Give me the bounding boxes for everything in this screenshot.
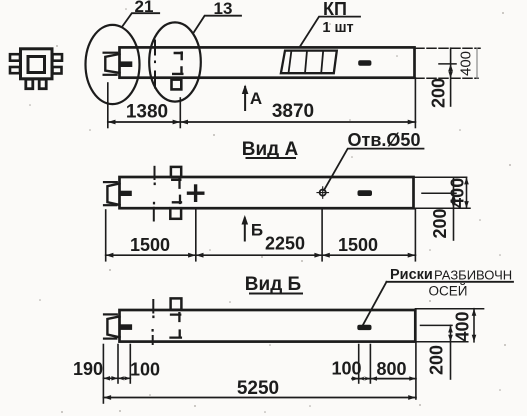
top view axis tick bottom — [154, 72, 156, 88]
top view right extension mid — [439, 63, 456, 65]
svg-text:21: 21 — [135, 0, 154, 16]
view B dim 5250 arrows — [103, 395, 416, 400]
view B dim line 5250 — [103, 397, 416, 399]
section arrow B head — [242, 215, 249, 225]
top view dim extension left — [107, 83, 109, 128]
view A embedded plate left — [120, 191, 132, 195]
section icon bottom leg left — [26, 79, 33, 89]
view A axis tick top — [154, 167, 156, 179]
dim arrow 1380 left — [108, 120, 116, 125]
view A embedded plate right — [358, 191, 372, 196]
view B embedded plate left — [120, 325, 132, 330]
view B riska mark black bar — [358, 325, 371, 329]
view B dim line 400 vertical — [473, 309, 475, 342]
svg-text:200: 200 — [429, 78, 449, 108]
view B dim extension left x103 — [102, 345, 104, 404]
svg-text:400: 400 — [453, 311, 473, 341]
section icon left tab upper — [10, 54, 20, 61]
svg-text:100: 100 — [331, 359, 361, 379]
view B bracket top corner — [171, 313, 180, 321]
svg-text:800: 800 — [376, 359, 406, 379]
svg-text:Вид Б: Вид Б — [245, 274, 301, 295]
view B axis tick bottom — [152, 336, 154, 344]
view A tab above beam — [171, 167, 181, 177]
view A dim 400 arrows — [464, 177, 469, 208]
view B right extension top — [415, 308, 483, 310]
balloon ellipse 21 — [86, 25, 140, 104]
top view right extension bottom — [415, 77, 478, 79]
view B axis dot lower — [152, 329, 154, 332]
KP label leader — [300, 17, 360, 47]
view B dim arrows 190 100 — [103, 376, 130, 380]
section icon inner square — [28, 57, 45, 73]
view B dim extension x370 — [369, 345, 371, 384]
view B right extension bottom — [415, 341, 467, 343]
view B dim line 190 100 — [103, 377, 130, 379]
top view dim line 1380 3870 — [108, 121, 416, 123]
view B right extension mid — [421, 324, 453, 326]
section icon right tab upper — [53, 54, 63, 61]
top view left tenon — [105, 54, 119, 73]
view A left tenon — [107, 183, 119, 205]
top view axis tick top — [154, 41, 156, 55]
view B dim 200 arrows — [448, 325, 453, 341]
view A dim extension left — [105, 210, 107, 261]
svg-text:400: 400 — [448, 178, 468, 208]
view B title underline — [250, 293, 302, 295]
svg-text:КП: КП — [323, 0, 347, 19]
view B left tenon — [107, 316, 119, 337]
view A right extension top — [414, 176, 467, 178]
top view dim 200 arrows — [448, 64, 453, 78]
view A dim 200 arrows — [451, 193, 456, 208]
view B dim extension x358 — [358, 345, 360, 384]
KP pad divider 2 — [305, 51, 307, 74]
view A axis dot upper — [154, 183, 156, 186]
view A hole circle — [320, 190, 326, 196]
view B axis tick top — [152, 300, 154, 313]
svg-text:5250: 5250 — [237, 378, 279, 399]
view A dim arrows x196 — [188, 253, 203, 258]
svg-text:ОСЕЙ: ОСЕЙ — [429, 284, 468, 299]
svg-text:400: 400 — [458, 51, 475, 76]
KP pad divider 1 — [289, 51, 292, 74]
section arrow A — [244, 87, 246, 110]
top view embedded plate right — [359, 61, 371, 66]
view A tenon tick lower — [104, 204, 116, 206]
view A dim extension right — [414, 209, 416, 261]
svg-text:13: 13 — [214, 0, 233, 18]
hole label leader — [324, 149, 424, 191]
view A dim arrows left — [106, 253, 114, 258]
view B tenon tick upper — [104, 313, 117, 315]
svg-text:Отв.Ø50: Отв.Ø50 — [348, 130, 421, 150]
svg-text:1500: 1500 — [130, 235, 170, 255]
svg-text:1 шт: 1 шт — [322, 20, 353, 36]
dim arrows at 1380 3870 junction — [173, 120, 188, 125]
view A dim extension x322 — [321, 209, 323, 261]
view A beam body — [120, 177, 414, 208]
view A axis tick bottom — [153, 208, 155, 221]
view B dim extension right x415 — [415, 342, 417, 399]
KP pad divider 3 — [321, 51, 323, 74]
view A dim arrows right — [408, 253, 416, 258]
top view bracket detail 13 top corner — [175, 53, 183, 59]
view B dim 400 arrows — [472, 309, 477, 342]
view A tenon tick upper — [104, 181, 117, 183]
view B beam body — [120, 310, 416, 342]
svg-text:200: 200 — [430, 208, 450, 238]
section icon left tab lower — [10, 67, 20, 73]
svg-text:2250: 2250 — [265, 234, 305, 254]
view B dim extension x130 — [129, 345, 131, 384]
KP pad hatched — [281, 51, 337, 74]
view A dim line 200 vertical — [453, 177, 455, 240]
svg-text:200: 200 — [427, 345, 447, 375]
svg-text:1380: 1380 — [126, 102, 168, 123]
section arrow B — [244, 219, 246, 241]
top view bracket detail 13 bottom corner — [173, 67, 182, 74]
svg-text:1500: 1500 — [338, 235, 378, 255]
balloon ellipse 13 — [149, 22, 201, 101]
view B dim arrows 100 800 — [352, 376, 416, 380]
view B dim line 100 800 — [352, 378, 416, 380]
top view right extension top — [415, 47, 480, 49]
top view embedded plate detail 21 — [120, 62, 132, 67]
svg-text:Вид А: Вид А — [242, 139, 299, 160]
top view tab below beam — [172, 80, 182, 90]
view B axis dot upper — [152, 316, 154, 319]
section icon outer square — [21, 49, 53, 79]
top view tenon tick upper — [104, 52, 118, 54]
top view faint outer dim 400 — [476, 48, 478, 78]
riska label leader — [363, 282, 387, 326]
view A title underline — [247, 157, 296, 159]
top view dim extension mid — [179, 98, 181, 128]
view B dim line 200 vertical — [450, 325, 452, 379]
view A dim line 1500 2250 1500 — [106, 254, 416, 256]
svg-text:100: 100 — [130, 360, 160, 380]
view A right extension mid — [422, 192, 456, 194]
label 21 leader — [123, 13, 160, 26]
top view axis dot — [154, 61, 156, 64]
view A center cross mark — [189, 191, 203, 194]
view A dim line 400 vertical — [466, 177, 468, 208]
view A right extension bottom — [414, 207, 471, 209]
top view tenon tick lower — [104, 74, 117, 76]
top view beam body — [120, 47, 415, 77]
top view dim line 200 vertical — [450, 48, 452, 106]
view A hole cross ticks — [317, 187, 329, 199]
view B tenon tick lower — [104, 338, 116, 340]
view A axis dot lower — [153, 202, 155, 205]
view A tab below beam — [170, 208, 181, 219]
view B dim extension x118 — [117, 345, 119, 384]
view A dim arrows x322 — [314, 253, 329, 258]
section arrow A head — [242, 85, 249, 95]
svg-text:Риски: Риски — [390, 267, 433, 283]
svg-text:РАЗБИВОЧН: РАЗБИВОЧН — [434, 268, 512, 283]
view A bracket bottom corner — [173, 196, 181, 203]
label 13 leader — [194, 16, 241, 32]
top view dim extension right — [414, 78, 416, 128]
section icon right tab lower — [53, 67, 62, 74]
svg-text:190: 190 — [73, 359, 103, 379]
view B bracket bottom corner — [171, 331, 181, 338]
svg-text:А: А — [250, 89, 262, 108]
riska label underline — [387, 281, 514, 283]
view B tab above beam — [171, 298, 182, 309]
svg-text:3870: 3870 — [272, 101, 314, 122]
dim arrow 3870 right — [408, 120, 416, 125]
view A dim extension x196 — [195, 209, 197, 261]
view A bracket top corner — [172, 179, 180, 188]
section icon bottom leg right — [39, 79, 46, 89]
svg-text:Б: Б — [251, 221, 263, 240]
